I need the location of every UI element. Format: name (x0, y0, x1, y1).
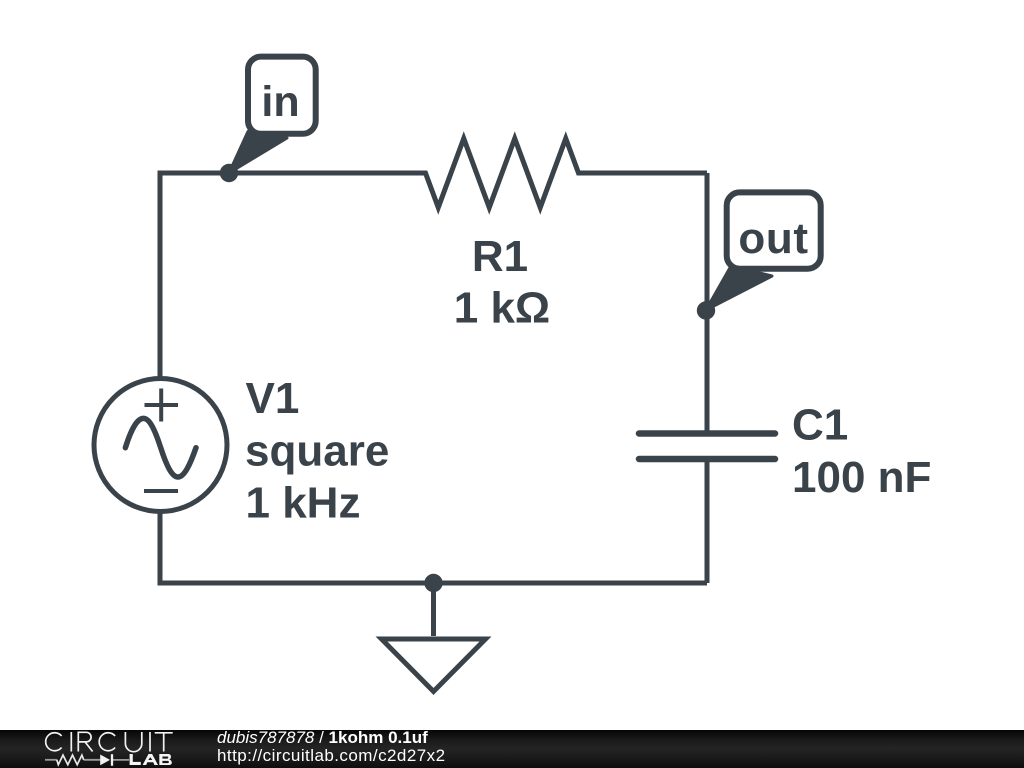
svg-text:1 kHz: 1 kHz (246, 479, 361, 528)
svg-text:out: out (738, 214, 808, 263)
svg-text:square: square (245, 427, 389, 476)
svg-text:1 kΩ: 1 kΩ (454, 284, 550, 333)
svg-text:R1: R1 (472, 232, 528, 281)
svg-text:V1: V1 (246, 374, 300, 423)
svg-text:C1: C1 (792, 401, 848, 450)
svg-text:100 nF: 100 nF (792, 453, 931, 502)
svg-text:in: in (261, 78, 299, 126)
